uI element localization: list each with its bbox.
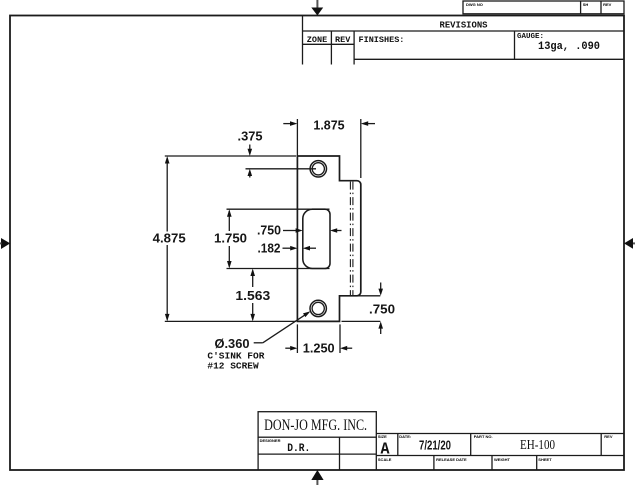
dimension .375: outside arrows (249, 145, 251, 151)
dimension 1.875: outside arrows (283, 123, 291, 125)
part outline: strike plate body with lip (297, 156, 360, 321)
dimension 1.875: extension of left edge up (296, 119, 298, 156)
dimension .750 cutout width: leader + outside arrows (283, 230, 296, 232)
svg-text:SH: SH (583, 2, 589, 7)
svg-text:WEIGHT: WEIGHT (494, 457, 511, 462)
dwg-no strip box top right (463, 1, 624, 14)
dimension .375: center line to hole (246, 168, 317, 170)
screw hole bottom (countersunk) (310, 300, 326, 316)
dimension 1.750: extension lines (227, 208, 330, 210)
dimension 1.875: extension line right (360, 119, 362, 178)
svg-text:ZONE: ZONE (307, 35, 327, 45)
dimension .750 right: extension lines (340, 295, 380, 297)
svg-text:.750: .750 (369, 302, 395, 317)
svg-text:SCALE: SCALE (378, 457, 392, 462)
bend line 2 (phantom) (352, 182, 354, 295)
svg-text:1.875: 1.875 (313, 118, 344, 133)
center mark left (0, 238, 10, 249)
svg-text:DON-JO MFG. INC.: DON-JO MFG. INC. (264, 417, 367, 434)
dimension 1.750: dimension line + arrows (228, 211, 230, 231)
svg-text:REVISIONS: REVISIONS (440, 20, 488, 31)
svg-text:DESIGNER: DESIGNER (260, 438, 281, 443)
dimension 1.250: outside arrows (285, 347, 291, 349)
title block: company box (258, 412, 376, 438)
title block: size/date/part/rev row (376, 434, 624, 456)
latch cutout rounded rectangle (303, 209, 330, 268)
svg-text:REV: REV (335, 35, 351, 45)
dimension 4.875: extension lines (165, 155, 296, 157)
svg-text:REV: REV (603, 2, 612, 7)
svg-text:1.563: 1.563 (235, 288, 270, 303)
svg-text:DATE:: DATE: (399, 434, 411, 439)
center mark bottom (311, 470, 323, 485)
dimension 4.875: dimension line + arrows (166, 158, 168, 232)
svg-text:7/21/20: 7/21/20 (419, 438, 451, 453)
svg-text:13ga, .090: 13ga, .090 (538, 41, 600, 53)
dimension 1.563: dimension line + arrows (252, 271, 254, 288)
title block: designer rows (258, 437, 376, 470)
svg-text:1.250: 1.250 (303, 341, 335, 356)
dimension .182: leader + outside arrows (283, 247, 291, 249)
svg-text:GAUGE:: GAUGE: (517, 33, 544, 41)
bend line 1 (phantom) (349, 182, 351, 295)
dimension 1.250: extension lines (296, 324, 298, 353)
svg-text:D.R.: D.R. (287, 443, 310, 455)
svg-text:#12 SCREW: #12 SCREW (207, 360, 259, 371)
svg-text:4.875: 4.875 (153, 231, 186, 246)
dimension .750 right: outside arrows (380, 283, 382, 290)
svg-text:EH-100: EH-100 (520, 437, 555, 452)
svg-text:DWG NO: DWG NO (466, 2, 483, 7)
svg-text:1.750: 1.750 (214, 231, 247, 246)
svg-text:.750: .750 (257, 223, 281, 238)
svg-text:.375: .375 (238, 129, 263, 144)
center mark right (624, 238, 635, 249)
revisions table (303, 16, 625, 65)
screw hole top (countersunk) (310, 161, 326, 177)
svg-text:SIZE: SIZE (378, 434, 387, 439)
center mark top (311, 0, 323, 16)
svg-text:.182: .182 (258, 241, 281, 256)
svg-text:SHEET: SHEET (538, 457, 552, 462)
svg-text:REV: REV (604, 434, 613, 439)
leader line for countersink note (254, 342, 263, 344)
svg-text:RELEASE DATE: RELEASE DATE (436, 457, 467, 462)
svg-text:Ø.360: Ø.360 (215, 336, 250, 351)
svg-text:FINISHES:: FINISHES: (359, 35, 405, 45)
title block: scale/release/weight/sheet row (434, 456, 537, 471)
svg-text:PART NO.: PART NO. (474, 434, 493, 439)
